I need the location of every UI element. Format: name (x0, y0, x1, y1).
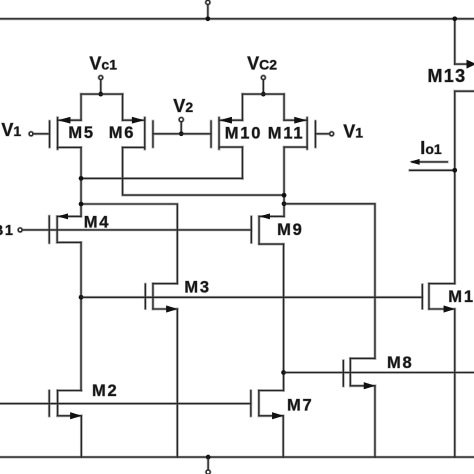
wire M8 source to ground rail (374, 386, 377, 457)
svg-text:VC2: VC2 (247, 53, 277, 73)
node B junction dot lower (282, 202, 287, 207)
wire Vc2 bar (242, 93, 284, 96)
transistor M13 partial at right edge (454, 19, 456, 64)
node B junction dot upper (282, 193, 287, 198)
node V1 right terminal (330, 132, 334, 136)
wire VB1 gate line to M4 and M9 (22, 229, 251, 231)
svg-text:M10: M10 (225, 125, 263, 143)
node bottom terminal (206, 455, 211, 460)
svg-text:M3: M3 (184, 278, 211, 296)
transistor M11 (314, 121, 317, 147)
node M1 gate tap dot (79, 295, 84, 300)
svg-text:M2: M2 (92, 382, 119, 400)
wire M10 drain to node A (241, 147, 244, 178)
wire M3 source to ground rail (176, 309, 178, 457)
wire Vc2 bar (242, 93, 284, 95)
wire M1 source to ground rail (454, 309, 456, 457)
node V1 left terminal (29, 132, 33, 136)
node A tap junction dot (79, 202, 84, 207)
node top rail right dot (452, 17, 457, 22)
wire node A horizontal (81, 177, 242, 179)
wire M2 M7 gate line (1, 403, 251, 405)
svg-text:M8: M8 (387, 354, 414, 372)
node Vc1 terminal (99, 76, 103, 80)
wire M11 drain down to node B (283, 147, 285, 216)
node Io1 junction dot (452, 168, 457, 173)
transistor M1 (421, 285, 424, 309)
svg-text:Io1: Io1 (420, 138, 442, 158)
node A junction dot (79, 176, 84, 181)
svg-text:Vc1: Vc1 (89, 54, 117, 74)
wire node A horizontal (81, 177, 242, 180)
svg-text:M13: M13 (428, 66, 467, 86)
transistor M7 (249, 391, 252, 417)
transistor M9 (250, 217, 253, 243)
svg-text:V1: V1 (343, 122, 363, 142)
transistor M8 (342, 361, 344, 387)
wire M1 gate line (81, 296, 422, 298)
wire node B tap to M8 drain (284, 204, 375, 359)
wire M6 drain down and right to node B (123, 147, 284, 195)
wire M6 drain down and right to node B (123, 147, 284, 195)
wire V2 gate line M6-M10 (153, 133, 211, 135)
wire M11 drain down to node B (283, 147, 286, 216)
transistor M8 (342, 361, 345, 387)
wire Io1 output stub (410, 169, 455, 171)
transistor M3 (144, 284, 147, 309)
wire top supply rail (1, 18, 474, 20)
node bottom terminal (206, 455, 211, 460)
transistor M6 (152, 121, 155, 147)
node M7 drain dot (281, 370, 286, 375)
wire M5 drain down through node A (80, 147, 83, 216)
wire VB1 gate line to M4 and M9 (22, 229, 251, 232)
node top rail right dot (452, 17, 457, 22)
wire V2 gate line M6-M10 (153, 132, 211, 135)
wire node A tap to M3 drain (81, 204, 177, 284)
arrow Io1 current annotation (413, 161, 448, 163)
svg-text:M9: M9 (277, 221, 304, 239)
wire Vc1 bar (81, 93, 123, 96)
wire top supply rail (1, 17, 474, 20)
wire M2 source to ground rail (80, 416, 83, 457)
wire M9 source down to M7 drain (283, 244, 285, 390)
wire M7 source to ground rail (282, 416, 285, 457)
transistor M2 (48, 391, 50, 417)
wire Io1 output stub (410, 169, 455, 172)
wire M8 source to ground rail (374, 386, 376, 457)
arrow Io1 current annotation (413, 161, 448, 164)
wire M4 source down to M2 drain (80, 242, 82, 390)
node top terminal (206, 0, 210, 4)
wire M2 source to ground rail (80, 416, 82, 457)
wire Vc1 bar (81, 93, 123, 95)
node Vc1 terminal (99, 76, 103, 80)
wire node A tap to M3 drain (81, 204, 177, 284)
wire M10 drain to node A (241, 147, 243, 178)
wire M4 source down to M2 drain (80, 242, 83, 390)
node Vc2 terminal (261, 76, 265, 80)
wire M5 drain down through node A (80, 147, 82, 216)
svg-text:M11: M11 (268, 125, 305, 143)
wire M9 source down to M7 drain (282, 244, 285, 390)
wire node B tap to M8 drain (284, 204, 375, 359)
wire M1 drain up to Io1 node (453, 91, 456, 283)
node V1 right terminal (330, 132, 334, 136)
node A tap junction dot (79, 202, 84, 207)
svg-text:M1: M1 (448, 288, 474, 306)
transistor M2 (48, 391, 51, 417)
svg-text:V2: V2 (173, 96, 193, 116)
svg-text:M5: M5 (68, 124, 95, 142)
transistor M7 (250, 391, 252, 417)
transistor M5 (48, 121, 51, 147)
wire M3 source to ground rail (176, 309, 179, 457)
node A junction dot (79, 176, 84, 181)
wire M8 gate line (284, 371, 474, 374)
node Io1 junction dot (452, 168, 457, 173)
wire M1 gate line (81, 296, 422, 299)
node top terminal (206, 0, 210, 4)
transistor M1 (421, 285, 423, 309)
svg-text:VB1: VB1 (0, 219, 14, 239)
transistor M5 (49, 121, 51, 147)
transistor M4 (48, 216, 51, 243)
transistor M10 (210, 121, 213, 147)
svg-text:M4: M4 (84, 213, 111, 231)
node B junction dot upper (282, 193, 287, 198)
transistor M4 (48, 216, 50, 243)
wire bottom supply rail (1, 456, 474, 458)
node V1 left terminal (29, 132, 33, 136)
wire M1 drain up to Io1 node (454, 91, 456, 283)
node VB1 terminal (18, 228, 22, 232)
node Vc2 terminal (261, 76, 265, 80)
svg-text:V1: V1 (1, 120, 21, 140)
transistor M6 (152, 121, 154, 147)
transistor M11 (314, 121, 316, 147)
node M7 drain dot (281, 370, 286, 375)
transistor M10 (210, 121, 212, 147)
wire bottom supply rail (1, 456, 474, 459)
node V2 terminal (179, 118, 183, 122)
wire M1 source to ground rail (453, 309, 456, 457)
node VB1 terminal (18, 228, 22, 232)
transistor M9 (250, 217, 252, 243)
node B junction dot lower (282, 202, 287, 207)
transistor M3 (144, 284, 146, 309)
wire M7 source to ground rail (282, 416, 284, 457)
node M1 gate tap dot (79, 295, 84, 300)
node V2 terminal (179, 118, 183, 122)
transistor M13 partial at right edge (453, 19, 456, 64)
svg-text:M6: M6 (109, 124, 136, 142)
svg-text:M7: M7 (287, 396, 314, 414)
wire M2 M7 gate line (1, 402, 251, 405)
wire M8 gate line (284, 372, 474, 374)
